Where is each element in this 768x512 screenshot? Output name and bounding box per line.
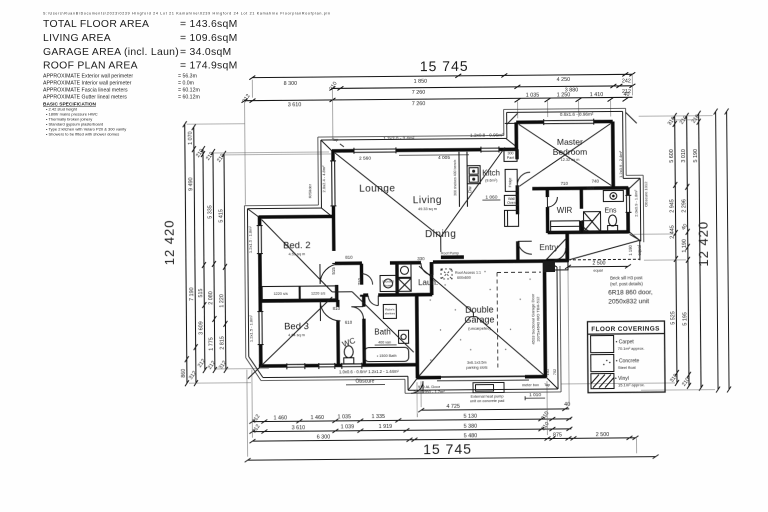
svg-text:5 335: 5 335 bbox=[207, 205, 213, 219]
eave outline north-west wing bbox=[247, 111, 642, 391]
door arc master bbox=[517, 172, 530, 185]
svg-text:APPROXIMATE Fascia lineal mete: APPROXIMATE Fascia lineal meters bbox=[43, 88, 128, 94]
exterior wall: ens east bbox=[626, 187, 630, 233]
svg-text:702: 702 bbox=[553, 369, 557, 375]
garage interior dashed door zone bbox=[497, 272, 542, 369]
bottom dimension chain row B bbox=[249, 417, 572, 424]
fixture bath shower bbox=[380, 275, 396, 291]
exterior wall: garage south piers bbox=[417, 377, 546, 378]
svg-text:7 260: 7 260 bbox=[412, 101, 426, 107]
svg-text:Master: Master bbox=[557, 137, 583, 147]
svg-text:40: 40 bbox=[623, 92, 629, 98]
svg-text:12 420: 12 420 bbox=[162, 219, 177, 265]
window bed2 west bbox=[257, 226, 263, 254]
svg-text:ROOF PLAN AREA: ROOF PLAN AREA bbox=[43, 61, 138, 72]
roof hip garage se bbox=[476, 316, 544, 376]
svg-text:5 130: 5 130 bbox=[464, 414, 478, 420]
exterior wall: laundry south jog bbox=[416, 293, 432, 297]
exterior wall: laundry east bbox=[430, 262, 434, 295]
exterior wall: garage/laundry north bbox=[433, 259, 546, 264]
svg-text:= 143.6sqM: = 143.6sqM bbox=[180, 19, 238, 30]
porch dashed line bbox=[568, 258, 640, 261]
svg-text:102: 102 bbox=[545, 368, 550, 375]
svg-text:2.0x0.9 - 1.8m²: 2.0x0.9 - 1.8m² bbox=[633, 189, 638, 217]
svg-text:Entry: Entry bbox=[539, 243, 558, 252]
svg-text:12.32 sq m: 12.32 sq m bbox=[561, 158, 580, 162]
svg-text:= 109.6sqM: = 109.6sqM bbox=[180, 33, 238, 44]
right dimension chain 3 bbox=[697, 111, 703, 391]
svg-text:shower: shower bbox=[383, 283, 393, 287]
svg-text:4 250: 4 250 bbox=[557, 77, 571, 83]
roof ridge dining stub bbox=[440, 237, 442, 252]
door arc wc bbox=[351, 307, 363, 319]
door arc bed2 bbox=[320, 264, 340, 284]
svg-text:8 300: 8 300 bbox=[284, 81, 298, 87]
svg-text:3 610: 3 610 bbox=[292, 425, 306, 431]
garage concrete dots bbox=[429, 271, 531, 361]
svg-text:1 460: 1 460 bbox=[274, 415, 288, 421]
svg-text:1 190: 1 190 bbox=[682, 239, 688, 253]
interior wall: kitchen east / hall west bbox=[515, 149, 519, 261]
exterior wall: master east bbox=[611, 121, 615, 187]
svg-text:300 shelves 400 bench: 300 shelves 400 bench bbox=[453, 160, 457, 196]
door arc bath bbox=[368, 296, 378, 306]
exterior wall: entry south / garage north bbox=[546, 259, 569, 263]
svg-text:• Vinyl: • Vinyl bbox=[615, 376, 629, 382]
svg-text:2 296: 2 296 bbox=[681, 199, 687, 213]
title block: TOTAL FLOOR AREA bbox=[43, 19, 238, 72]
legend concrete swatch bbox=[591, 354, 614, 371]
svg-text:1.2x0.8 - 0.96m²: 1.2x0.8 - 0.96m² bbox=[470, 132, 504, 137]
roof hip lounge bbox=[335, 152, 441, 238]
svg-text:(ref. post details): (ref. post details) bbox=[610, 281, 643, 286]
svg-text:1220 s/s: 1220 s/s bbox=[311, 292, 325, 296]
svg-text:15 745: 15 745 bbox=[420, 58, 469, 74]
door arc ens bbox=[582, 221, 593, 232]
svg-text:15.1m² approx.: 15.1m² approx. bbox=[618, 382, 645, 387]
svg-text:= 56.3m: = 56.3m bbox=[178, 74, 197, 80]
svg-text:710: 710 bbox=[357, 277, 362, 285]
svg-text:9 490: 9 490 bbox=[188, 177, 194, 191]
svg-text:= 34.0sqM: = 34.0sqM bbox=[180, 47, 232, 58]
svg-text:1 250: 1 250 bbox=[557, 92, 571, 98]
svg-text:• Carpet: • Carpet bbox=[616, 339, 635, 345]
svg-text:equal: equal bbox=[593, 269, 602, 273]
svg-text:2 445: 2 445 bbox=[670, 225, 676, 239]
exterior wall: garage east bbox=[544, 261, 545, 377]
svg-text:Dining: Dining bbox=[425, 229, 456, 240]
svg-text:APPROXIMATE Exterior wall peri: APPROXIMATE Exterior wall perimeter bbox=[43, 74, 133, 80]
svg-text:810: 810 bbox=[333, 306, 341, 311]
svg-text:1 460: 1 460 bbox=[311, 415, 325, 421]
svg-text:1 039: 1 039 bbox=[341, 424, 355, 430]
svg-text:3 610: 3 610 bbox=[288, 102, 302, 108]
svg-text:15 745: 15 745 bbox=[423, 441, 472, 457]
eave corner hips bbox=[247, 112, 642, 391]
svg-text:2 080: 2 080 bbox=[208, 291, 214, 305]
svg-text:meter box: meter box bbox=[522, 383, 539, 387]
svg-text:S:\Users\RuanB\Documents\2023\: S:\Users\RuanB\Documents\2023\0239 Hingf… bbox=[43, 12, 330, 16]
left dimension chain 5 bbox=[222, 151, 228, 373]
exterior wall: suite north (master south) bbox=[532, 186, 628, 190]
roof hip garage sw bbox=[418, 317, 471, 376]
svg-text:5 415: 5 415 bbox=[218, 209, 224, 223]
left dimension chain 2 bbox=[192, 124, 198, 386]
fixture ens toilet bbox=[608, 215, 618, 232]
svg-text:GARAGE AREA (incl. Laun): GARAGE AREA (incl. Laun) bbox=[43, 47, 179, 58]
roof hip bath valley bbox=[352, 291, 414, 353]
svg-text:2050x832 unit: 2050x832 unit bbox=[608, 298, 649, 305]
svg-text:5 525: 5 525 bbox=[670, 311, 676, 325]
fixture kitchen sink bbox=[467, 166, 480, 184]
garage door south thin lines bbox=[441, 375, 525, 378]
fixture bath vanity bbox=[399, 330, 409, 343]
right dimension chain 2 bbox=[685, 113, 691, 389]
svg-text:7 260: 7 260 bbox=[412, 90, 426, 96]
svg-text:3 010: 3 010 bbox=[681, 149, 687, 163]
title block: approximate perimeter lines bbox=[43, 74, 200, 101]
svg-text:1 035: 1 035 bbox=[338, 414, 352, 420]
svg-text:= 60.12m: = 60.12m bbox=[178, 95, 200, 101]
interior wall: lounge east / bed2 east bbox=[331, 151, 335, 264]
fixture wc toilet bbox=[344, 346, 354, 364]
svg-text:400 van: 400 van bbox=[378, 340, 391, 344]
svg-text:2.0x0.950 - 1.7m²: 2.0x0.950 - 1.7m² bbox=[413, 389, 445, 394]
legend vinyl swatch bbox=[591, 373, 614, 388]
svg-text:0.6x1.6 - 0.96m²: 0.6x1.6 - 0.96m² bbox=[560, 112, 594, 117]
bottom dimension chain row D bbox=[249, 436, 638, 443]
svg-text:Tap: Tap bbox=[332, 137, 339, 142]
svg-text:2075x4640 R/O TBH-512: 2075x4640 R/O TBH-512 bbox=[535, 296, 540, 342]
svg-text:49.33 sq m: 49.33 sq m bbox=[418, 207, 437, 211]
heat pump pad bbox=[473, 382, 504, 392]
top dimension chain row 1 bbox=[249, 72, 635, 79]
svg-text:1 775: 1 775 bbox=[209, 337, 215, 351]
svg-text:610: 610 bbox=[345, 320, 353, 325]
roof ridge bed wing bbox=[332, 291, 352, 293]
fixture linen shelves bbox=[383, 304, 396, 318]
svg-text:Bedroom: Bedroom bbox=[553, 147, 588, 157]
interior wall: bath north bbox=[363, 293, 416, 297]
door arc AL door garage sw bbox=[411, 381, 423, 393]
fixture wir robe bbox=[551, 221, 580, 232]
svg-text:5 600: 5 600 bbox=[669, 149, 675, 163]
roof hip bed wing nw bbox=[262, 219, 333, 293]
svg-text:equal: equal bbox=[637, 245, 642, 255]
svg-text:Obscure: Obscure bbox=[355, 379, 374, 385]
fixture ens shower bbox=[583, 212, 600, 232]
door arc bed3 bbox=[320, 301, 340, 321]
svg-text:= 0.0m: = 0.0m bbox=[178, 81, 194, 87]
svg-text:300: 300 bbox=[507, 151, 513, 155]
svg-text:Brick sill H3 post: Brick sill H3 post bbox=[610, 275, 643, 280]
legend carpet swatch bbox=[591, 335, 614, 352]
robe bed2 left 1220 bbox=[262, 286, 299, 299]
exterior wall: garage west bbox=[415, 294, 419, 378]
svg-text:1 410: 1 410 bbox=[590, 92, 604, 98]
svg-text:875: 875 bbox=[553, 432, 562, 438]
svg-text:Steel float: Steel float bbox=[618, 365, 637, 370]
fixture fridge space bbox=[505, 169, 517, 191]
svg-text:515: 515 bbox=[198, 289, 204, 298]
interior wall: wir/ens divider bbox=[580, 188, 584, 233]
svg-text:Kitch: Kitch bbox=[482, 168, 500, 177]
svg-text:2 815: 2 815 bbox=[220, 336, 226, 350]
roof hip kitchen bbox=[440, 147, 506, 237]
svg-text:Laun.: Laun. bbox=[418, 278, 438, 287]
svg-text:(uncarpeted): (uncarpeted) bbox=[468, 326, 491, 331]
window wc south bbox=[319, 363, 335, 369]
svg-text:1 190: 1 190 bbox=[628, 244, 633, 255]
svg-text:4.51 sq m: 4.51 sq m bbox=[288, 252, 305, 256]
roof hip bed wing sw bbox=[247, 297, 333, 379]
exterior wall: ens south bbox=[548, 230, 629, 234]
svg-text:1.2x1.5 - 1.8m²: 1.2x1.5 - 1.8m² bbox=[248, 315, 253, 343]
door arc wir bbox=[547, 197, 557, 207]
svg-text:TOTAL FLOOR AREA: TOTAL FLOOR AREA bbox=[43, 19, 149, 30]
svg-text:4 005: 4 005 bbox=[438, 155, 450, 161]
left dimension chain 1 bbox=[183, 121, 189, 386]
svg-text:330: 330 bbox=[417, 256, 425, 261]
svg-text:860: 860 bbox=[181, 369, 187, 378]
svg-text:515: 515 bbox=[331, 267, 336, 275]
svg-text:810: 810 bbox=[345, 255, 353, 260]
svg-text:600x600: 600x600 bbox=[457, 276, 471, 280]
svg-text:7 190: 7 190 bbox=[189, 287, 195, 301]
porch hip bbox=[569, 234, 640, 261]
exterior wall: kitchen-master jog bbox=[514, 122, 518, 149]
svg-text:WIR: WIR bbox=[557, 206, 573, 215]
fixture pantry bbox=[504, 149, 517, 161]
fixture wall oven bbox=[504, 195, 518, 205]
roof X master bbox=[519, 124, 612, 187]
svg-text:Bed. 2: Bed. 2 bbox=[283, 240, 311, 251]
svg-text:1 070: 1 070 bbox=[188, 131, 194, 145]
roof ridge garage bbox=[470, 313, 476, 317]
svg-text:Tap: Tap bbox=[544, 383, 550, 387]
interior wall: bed3 east bbox=[336, 300, 340, 365]
svg-text:242: 242 bbox=[622, 78, 631, 84]
window ens east bbox=[625, 195, 631, 212]
svg-text:1 220: 1 220 bbox=[219, 294, 225, 308]
svg-text:Ens: Ens bbox=[604, 207, 617, 214]
svg-text:5 380: 5 380 bbox=[464, 424, 478, 430]
door arc hall lobby bbox=[362, 274, 373, 285]
svg-text:1 919: 1 919 bbox=[379, 424, 393, 430]
svg-text:Bed 3: Bed 3 bbox=[284, 321, 309, 332]
interior wall: wir west bbox=[546, 188, 550, 233]
svg-text:3x6.1x3.5m: 3x6.1x3.5m bbox=[467, 361, 487, 365]
dimension extension lines bbox=[186, 73, 715, 458]
svg-text:1.0x0.6 - 0.6m² 1.2x1.2 - 1.44: 1.0x0.6 - 0.6m² 1.2x1.2 - 1.44m² bbox=[339, 369, 399, 375]
svg-text:2.0x2.4 - 4.8m²: 2.0x2.4 - 4.8m² bbox=[321, 165, 326, 193]
window bed3 south bbox=[287, 363, 305, 369]
interior wall: hall south (living/garage) bbox=[335, 261, 421, 265]
svg-text:Garage: Garage bbox=[464, 315, 494, 325]
eave fascia outer line bbox=[244, 108, 645, 394]
bottom dimension chain row C bbox=[249, 427, 572, 434]
svg-text:4.64 sq m: 4.64 sq m bbox=[288, 333, 305, 337]
interior wall: laundry west bbox=[395, 262, 399, 295]
exterior wall: master north bbox=[516, 120, 612, 124]
exterior wall: bed2 north bbox=[259, 215, 333, 219]
svg-text:5 190: 5 190 bbox=[693, 149, 699, 163]
svg-text:3 609: 3 609 bbox=[198, 321, 204, 335]
robe bed2 right 1220 bbox=[300, 286, 336, 299]
porch dim 2500 bbox=[565, 264, 631, 269]
door arc laundry bbox=[421, 263, 433, 275]
window kitchen north bbox=[481, 146, 499, 152]
svg-text:parking slots: parking slots bbox=[466, 366, 487, 370]
svg-text:2 945: 2 945 bbox=[669, 199, 675, 213]
exterior wall: lounge/kitchen north bbox=[332, 149, 518, 151]
svg-text:405: 405 bbox=[547, 263, 552, 270]
svg-text:Dw: Dw bbox=[467, 186, 472, 193]
svg-text:FLOOR COVERINGS: FLOOR COVERINGS bbox=[591, 326, 660, 334]
svg-text:Roof Pump: Roof Pump bbox=[441, 251, 459, 255]
fixture prep bench bbox=[504, 210, 518, 226]
window master north bbox=[544, 119, 594, 125]
top dimension chain row 3 bbox=[241, 95, 632, 104]
svg-text:R/Slider: R/Slider bbox=[307, 183, 312, 198]
top dimension chain row 2 bbox=[329, 84, 635, 91]
svg-text:2 560: 2 560 bbox=[359, 156, 371, 162]
bottom dimension chain row A bbox=[418, 407, 569, 412]
fixture washer bbox=[398, 278, 411, 291]
exterior wall: south bbox=[259, 365, 417, 366]
kitchen bench sill line bbox=[399, 154, 469, 157]
svg-text:unit on concrete pad: unit on concrete pad bbox=[470, 399, 504, 403]
svg-text:• Showers to be fitted with sh: • Showers to be fitted with shower domes bbox=[46, 132, 119, 137]
svg-text:710: 710 bbox=[561, 181, 569, 186]
svg-text:550: 550 bbox=[587, 186, 595, 191]
left dimension chain 3 bbox=[201, 146, 207, 373]
svg-text:4 725: 4 725 bbox=[446, 404, 460, 410]
svg-text:LIVING AREA: LIVING AREA bbox=[43, 33, 111, 44]
svg-text:6R18 860 door,: 6R18 860 door, bbox=[608, 289, 653, 296]
entry porch pier bbox=[543, 261, 555, 272]
svg-text:Pant: Pant bbox=[507, 156, 514, 160]
title block: specification bullets bbox=[46, 107, 126, 137]
interior wall: hall east (bath west upper) bbox=[360, 264, 364, 297]
svg-text:1.2x1.5 - 1.8m²: 1.2x1.5 - 1.8m² bbox=[248, 226, 253, 254]
svg-text:Roof Access 1:1: Roof Access 1:1 bbox=[455, 271, 481, 275]
right dimension chain 1 bbox=[673, 113, 679, 386]
svg-text:6 300: 6 300 bbox=[317, 434, 331, 440]
fixture kitchen bench bbox=[459, 152, 467, 207]
fixture laundry tub bbox=[398, 263, 411, 277]
roof valley entry bbox=[546, 239, 566, 260]
svg-text:Fridge: Fridge bbox=[508, 177, 512, 187]
interior wall: robe end stub bbox=[335, 285, 339, 300]
svg-text:1220 s/s: 1220 s/s bbox=[274, 292, 288, 296]
svg-text:1 335: 1 335 bbox=[372, 414, 386, 420]
svg-text:5 195: 5 195 bbox=[682, 312, 688, 326]
roof hip garage nw bbox=[419, 266, 473, 313]
window lounge west (left wall) bbox=[330, 161, 336, 206]
svg-text:Lounge: Lounge bbox=[359, 183, 395, 194]
exterior wall: west bbox=[260, 217, 261, 368]
svg-text:1.2x0.9 - 2.4m²: 1.2x0.9 - 2.4m² bbox=[618, 150, 623, 178]
exterior wall: entry east bbox=[565, 232, 569, 259]
svg-text:5 480: 5 480 bbox=[464, 433, 478, 439]
svg-text:APPROXIMATE Interior wall peri: APPROXIMATE Interior wall perimeter bbox=[43, 81, 132, 87]
svg-text:1.2x2.0 - 2.4m²: 1.2x2.0 - 2.4m² bbox=[383, 136, 414, 141]
window bed3 west bbox=[257, 312, 263, 345]
svg-text:12 420: 12 420 bbox=[696, 221, 711, 267]
svg-text:Oven: Oven bbox=[507, 201, 516, 205]
door arc kitchen hall bbox=[518, 241, 532, 254]
svg-text:Double: Double bbox=[465, 305, 494, 315]
door arc entry front bbox=[554, 248, 566, 260]
svg-text:1 010: 1 010 bbox=[529, 392, 541, 398]
left dimension chain 4 bbox=[211, 149, 217, 373]
fixture ens vanity bbox=[603, 190, 623, 201]
window lounge north bbox=[354, 147, 396, 153]
fixture bath tub bbox=[365, 347, 409, 361]
interior wall: bed2/bed3 divider bbox=[259, 299, 337, 303]
svg-text:Bath: Bath bbox=[374, 327, 391, 336]
svg-text:2 500: 2 500 bbox=[592, 261, 605, 267]
svg-text:• Concrete: • Concrete bbox=[616, 358, 640, 364]
svg-text:• 1500 Bath: • 1500 Bath bbox=[377, 354, 397, 358]
svg-text:70.1m² approx.: 70.1m² approx. bbox=[618, 346, 645, 351]
svg-text:Obscure 1012: Obscure 1012 bbox=[643, 181, 648, 207]
svg-text:shelves: shelves bbox=[385, 311, 396, 315]
svg-text:= 174.9sqM: = 174.9sqM bbox=[180, 61, 238, 72]
svg-text:(9.6m²): (9.6m²) bbox=[485, 178, 498, 182]
svg-text:= 60.12m: = 60.12m bbox=[178, 88, 200, 94]
svg-text:Living: Living bbox=[413, 195, 442, 206]
svg-text:740: 740 bbox=[592, 179, 600, 184]
svg-text:1 035: 1 035 bbox=[526, 93, 540, 99]
window bath south bbox=[342, 363, 362, 369]
interior wall: wc/bath divider bbox=[362, 295, 366, 365]
legend box floor coverings bbox=[587, 321, 665, 393]
svg-text:1 850: 1 850 bbox=[414, 79, 428, 85]
svg-text:APPROXIMATE Gutter lineal mete: APPROXIMATE Gutter lineal meters bbox=[43, 95, 127, 101]
svg-text:2 500: 2 500 bbox=[596, 432, 610, 438]
